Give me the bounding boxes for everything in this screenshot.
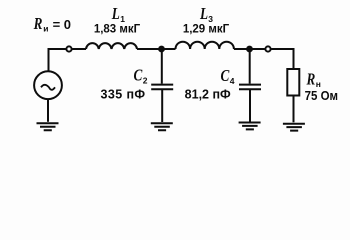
capacitor C4 bbox=[239, 85, 261, 90]
svg-text:3: 3 bbox=[208, 14, 213, 24]
wire node B to C4 bbox=[249, 49, 251, 84]
wire node A to L3 bbox=[162, 48, 176, 50]
label L3 bbox=[199, 6, 208, 24]
svg-text:1,29 мкГ: 1,29 мкГ bbox=[183, 24, 230, 36]
svg-text:C: C bbox=[221, 68, 231, 86]
wire C2 to ground bbox=[161, 89, 163, 122]
svg-text:C: C bbox=[134, 67, 144, 85]
ground (load) bbox=[283, 124, 305, 131]
label L1 bbox=[111, 6, 120, 24]
junction node B bbox=[246, 46, 253, 53]
inductor L3 bbox=[176, 42, 234, 49]
label C4 bbox=[221, 68, 231, 86]
wire input node to L1 bbox=[72, 48, 86, 50]
wire node B to output terminal bbox=[250, 48, 265, 50]
wire resistor to ground bbox=[293, 96, 295, 123]
voltage source G1 bbox=[34, 71, 62, 99]
svg-text:L: L bbox=[111, 6, 120, 24]
ground (C4) bbox=[239, 123, 261, 130]
svg-text:2: 2 bbox=[143, 76, 148, 86]
wire L3 to node B bbox=[234, 48, 250, 50]
wire L1 to node A bbox=[137, 48, 162, 50]
svg-text:335 пФ: 335 пФ bbox=[101, 88, 146, 102]
svg-text:81,2 пФ: 81,2 пФ bbox=[185, 88, 231, 102]
label RI bbox=[33, 16, 43, 34]
wire output terminal to resistor branch bbox=[271, 49, 293, 69]
svg-text:L: L bbox=[199, 6, 208, 24]
svg-text:R: R bbox=[33, 16, 43, 34]
capacitor C2 bbox=[151, 85, 173, 90]
svg-text:75 Ом: 75 Ом bbox=[305, 89, 339, 104]
svg-text:= 0: = 0 bbox=[53, 17, 71, 32]
wire node A to C2 bbox=[161, 49, 163, 84]
svg-text:4: 4 bbox=[230, 76, 235, 86]
ground (source) bbox=[37, 123, 59, 130]
svg-text:1,83 мкГ: 1,83 мкГ bbox=[94, 24, 141, 36]
svg-text:1: 1 bbox=[120, 14, 125, 24]
junction node A bbox=[158, 46, 165, 53]
svg-text:R: R bbox=[306, 71, 316, 89]
value 75 Om bbox=[305, 89, 339, 104]
wire source to ground bbox=[47, 99, 49, 122]
wire C4 to ground bbox=[249, 89, 251, 121]
inductor L1 bbox=[86, 43, 137, 49]
wire top-left corner from source to input node bbox=[49, 49, 66, 71]
node output terminal bbox=[265, 46, 270, 51]
svg-text:и: и bbox=[43, 24, 48, 34]
node input terminal bbox=[66, 46, 71, 51]
label RH bbox=[306, 71, 316, 89]
label C2 bbox=[134, 67, 144, 85]
resistor RH bbox=[287, 69, 299, 96]
ground (C2) bbox=[151, 123, 173, 130]
